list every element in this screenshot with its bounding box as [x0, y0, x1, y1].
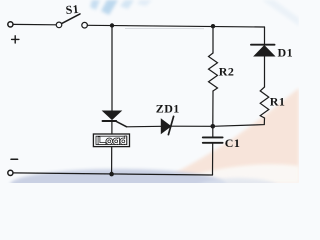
svg-text:R2: R2: [219, 65, 234, 79]
resistor R2: [209, 53, 218, 91]
label Load: [99, 137, 126, 144]
node: top junction at R2 branch: [211, 24, 215, 28]
wire: R2 to middle junction: [212, 91, 214, 126]
minus label: [11, 158, 18, 160]
wire: R1 down and left to junction: [213, 118, 265, 126]
wire: R2 branch vertical from top: [212, 26, 214, 53]
zener diode ZD1: [161, 119, 170, 133]
wire: switch to top-right corner: [87, 25, 264, 27]
node: middle junction (ZD1/C1/R1/R2): [211, 124, 216, 129]
plus label: [12, 36, 19, 43]
paper background: [0, 0, 299, 183]
wire: + terminal to switch: [13, 23, 56, 25]
resistor R1: [260, 87, 269, 118]
wire: D1 to R1: [264, 57, 266, 88]
load box: [93, 134, 129, 147]
wire: gate wire from SCR to ZD1 anode: [126, 125, 161, 128]
wire: load box to bottom rail: [111, 147, 113, 175]
terminal - (negative input): [8, 170, 13, 175]
wire: ZD1 cathode to middle junction: [171, 125, 211, 127]
wire: SCR branch vertical from top: [111, 26, 113, 112]
svg-text:C1: C1: [225, 136, 240, 150]
thyristor SCR (series pass element): [103, 111, 121, 119]
wire: C1 to bottom rail: [212, 144, 214, 175]
diode D1: [251, 44, 275, 46]
svg-text:D1: D1: [278, 46, 293, 60]
wire: bottom rail: [13, 173, 212, 175]
wire: middle junction to C1: [212, 126, 214, 137]
node: bottom junction at load branch: [109, 172, 114, 177]
node: top junction at SCR branch: [110, 23, 114, 27]
switch S1: [56, 22, 62, 28]
svg-text:R1: R1: [270, 95, 285, 109]
terminal + (positive input): [8, 22, 13, 27]
wire: top corner down to D1: [264, 27, 266, 45]
wire: SCR cathode to load box: [111, 122, 113, 135]
svg-text:ZD1: ZD1: [156, 102, 180, 116]
svg-text:S1: S1: [65, 2, 80, 17]
capacitor C1: [203, 136, 223, 138]
